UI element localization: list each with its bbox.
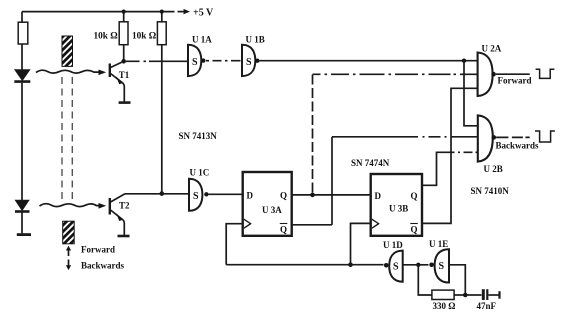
ground (T1 emitter) bbox=[119, 101, 131, 104]
svg-text:S: S bbox=[193, 191, 199, 202]
transistor T2 bbox=[109, 198, 111, 215]
+5V arrow bbox=[178, 11, 184, 13]
svg-text:S: S bbox=[246, 57, 252, 68]
wire U1A to U1B (dash-dot) bbox=[206, 60, 241, 62]
node dot U1B line branch bbox=[462, 59, 466, 63]
wire Qbar to U2B input 2 (part dashed) bbox=[332, 136, 477, 138]
wire Q riser (dashed) bbox=[312, 74, 314, 192]
vane slot 2 (hatched) bbox=[63, 221, 74, 244]
svg-text:U 3A: U 3A bbox=[262, 205, 282, 215]
svg-text:+5 V: +5 V bbox=[193, 8, 214, 19]
svg-text:Backwards: Backwards bbox=[81, 261, 125, 271]
wire node C to capacitor bbox=[468, 294, 482, 296]
node B: T2 collector bbox=[160, 191, 165, 196]
schmitt gate U1C bbox=[189, 179, 202, 211]
svg-text:Backwards: Backwards bbox=[496, 141, 540, 151]
arrow up (vane motion) bbox=[68, 250, 70, 257]
wire U3B Qbar to U2A input 3 bbox=[422, 88, 477, 223]
capacitor C1 47nF bbox=[482, 289, 485, 300]
wire T2 collector to U1C input bbox=[125, 193, 189, 195]
wire T1 collector to U1A input (dash-dot) bbox=[126, 60, 188, 62]
svg-text:S: S bbox=[393, 261, 399, 272]
waveform icon (Forward) bbox=[536, 69, 555, 78]
svg-text:SN 7410N: SN 7410N bbox=[471, 186, 510, 196]
svg-text:U 1A: U 1A bbox=[192, 35, 212, 45]
wire U3B Q up-over to U2B input 3 (part dashed) bbox=[422, 152, 477, 185]
schmitt gate U1E (mirrored) bbox=[435, 249, 449, 282]
svg-text:Q: Q bbox=[411, 225, 418, 235]
light squiggle arrow to T1 bbox=[36, 70, 99, 73]
svg-text:S: S bbox=[192, 57, 198, 68]
svg-text:SN 7413N: SN 7413N bbox=[179, 131, 218, 141]
transistor T1 bbox=[109, 64, 111, 78]
svg-text:U 1C: U 1C bbox=[190, 168, 210, 178]
svg-text:Forward: Forward bbox=[81, 245, 115, 255]
wire clock bus U3A to U1D input bbox=[226, 264, 383, 266]
nand gate U2B bbox=[478, 115, 493, 161]
resistor R2 10k bbox=[119, 22, 128, 45]
wire U3A clock from bottom bus bbox=[226, 224, 242, 265]
svg-text:D: D bbox=[375, 191, 382, 201]
node dot rail/R3 bbox=[160, 10, 164, 14]
vane slot 1 (hatched) bbox=[62, 36, 73, 66]
wire U1E out down to node C bbox=[449, 265, 465, 295]
node dot U1D output bbox=[416, 263, 420, 267]
svg-text:Q: Q bbox=[280, 190, 287, 200]
resistor R4 330 bbox=[432, 290, 454, 299]
resistor R3 10k bbox=[157, 22, 166, 45]
ground (left LED branch) bbox=[17, 233, 31, 236]
light path dashed line right bbox=[71, 77, 73, 202]
light squiggle arrow to T2 bbox=[40, 204, 101, 207]
svg-text:U 1D: U 1D bbox=[383, 240, 403, 250]
wire R3 down to T2 collector node bbox=[161, 45, 163, 194]
wire +5V top rail bbox=[22, 11, 175, 13]
node dot clock bus bbox=[348, 262, 353, 267]
svg-text:T1: T1 bbox=[119, 70, 130, 80]
wire U1D out down to R4 bbox=[418, 265, 431, 295]
nand gate U2A bbox=[478, 53, 493, 97]
wire U2A output bbox=[496, 73, 530, 75]
wire LED2 to ground bbox=[21, 213, 23, 234]
wire branch down to U2B input 1 bbox=[464, 61, 477, 126]
svg-text:U 3B: U 3B bbox=[389, 204, 408, 214]
svg-text:Q: Q bbox=[280, 225, 287, 235]
wire U3A Q to U3B D bbox=[292, 194, 370, 196]
wire R2 to T1 collector node bbox=[123, 45, 125, 61]
resistor R1 (left unlabeled) bbox=[18, 22, 28, 44]
wire left vertical (LED branch) bbox=[21, 12, 23, 70]
svg-text:Q: Q bbox=[411, 191, 418, 201]
ground (capacitor end) bbox=[498, 291, 500, 299]
LED D1 bbox=[15, 70, 30, 81]
svg-text:10k Ω: 10k Ω bbox=[94, 32, 119, 42]
svg-text:D: D bbox=[247, 190, 254, 200]
node dot Q of U3A bbox=[310, 193, 315, 198]
wire between LEDs bbox=[21, 83, 23, 200]
wire Qbar riser bbox=[331, 137, 333, 225]
svg-text:U 2B: U 2B bbox=[484, 164, 503, 174]
wire rail to R2 bbox=[123, 12, 125, 22]
wire U1C output to U3A D bbox=[209, 193, 242, 195]
node C dot bbox=[463, 293, 468, 298]
flip-flop U3A bbox=[243, 172, 292, 236]
svg-text:U 2A: U 2A bbox=[482, 44, 502, 54]
schmitt gate U1D (mirrored) bbox=[389, 251, 403, 282]
svg-text:Forward: Forward bbox=[498, 76, 532, 86]
clock triangle U3B bbox=[372, 219, 379, 228]
wire Q to U2A input 2 (dash-dot) bbox=[313, 73, 483, 75]
arrow down (vane motion) bbox=[68, 260, 70, 267]
wire U1B output to U2A input 1 bbox=[260, 60, 478, 62]
svg-text:S: S bbox=[439, 261, 445, 272]
svg-text:U 1E: U 1E bbox=[429, 239, 448, 249]
wire U3A Qbar to riser bbox=[292, 224, 332, 226]
schmitt gate U1A bbox=[188, 45, 201, 76]
svg-text:330 Ω: 330 Ω bbox=[433, 301, 456, 311]
wire U3B clock riser bbox=[351, 223, 371, 264]
wire rail to R3 bbox=[161, 12, 163, 22]
flip-flop U3B bbox=[371, 174, 422, 236]
waveform icon (Backwards) bbox=[535, 131, 555, 142]
schmitt gate U1B bbox=[242, 45, 255, 76]
clock triangle U3A bbox=[244, 219, 251, 228]
wire capacitor to end bbox=[489, 294, 500, 296]
LED D2 bbox=[15, 200, 28, 210]
light path dashed line left bbox=[61, 77, 63, 202]
svg-text:47nF: 47nF bbox=[477, 301, 497, 311]
wire U2B output (dash-dot) bbox=[496, 136, 530, 138]
svg-text:SN 7474N: SN 7474N bbox=[351, 158, 390, 168]
node A: T1 collector bbox=[121, 59, 126, 64]
wire R4 to node C bbox=[454, 294, 465, 296]
svg-text:10k Ω: 10k Ω bbox=[132, 32, 157, 42]
node dot rail/R2 bbox=[122, 10, 126, 14]
ground (T2 emitter) bbox=[118, 235, 130, 238]
wire U1D out to U1E in bbox=[403, 264, 429, 266]
svg-text:T2: T2 bbox=[119, 201, 130, 211]
svg-text:U 1B: U 1B bbox=[246, 35, 265, 45]
